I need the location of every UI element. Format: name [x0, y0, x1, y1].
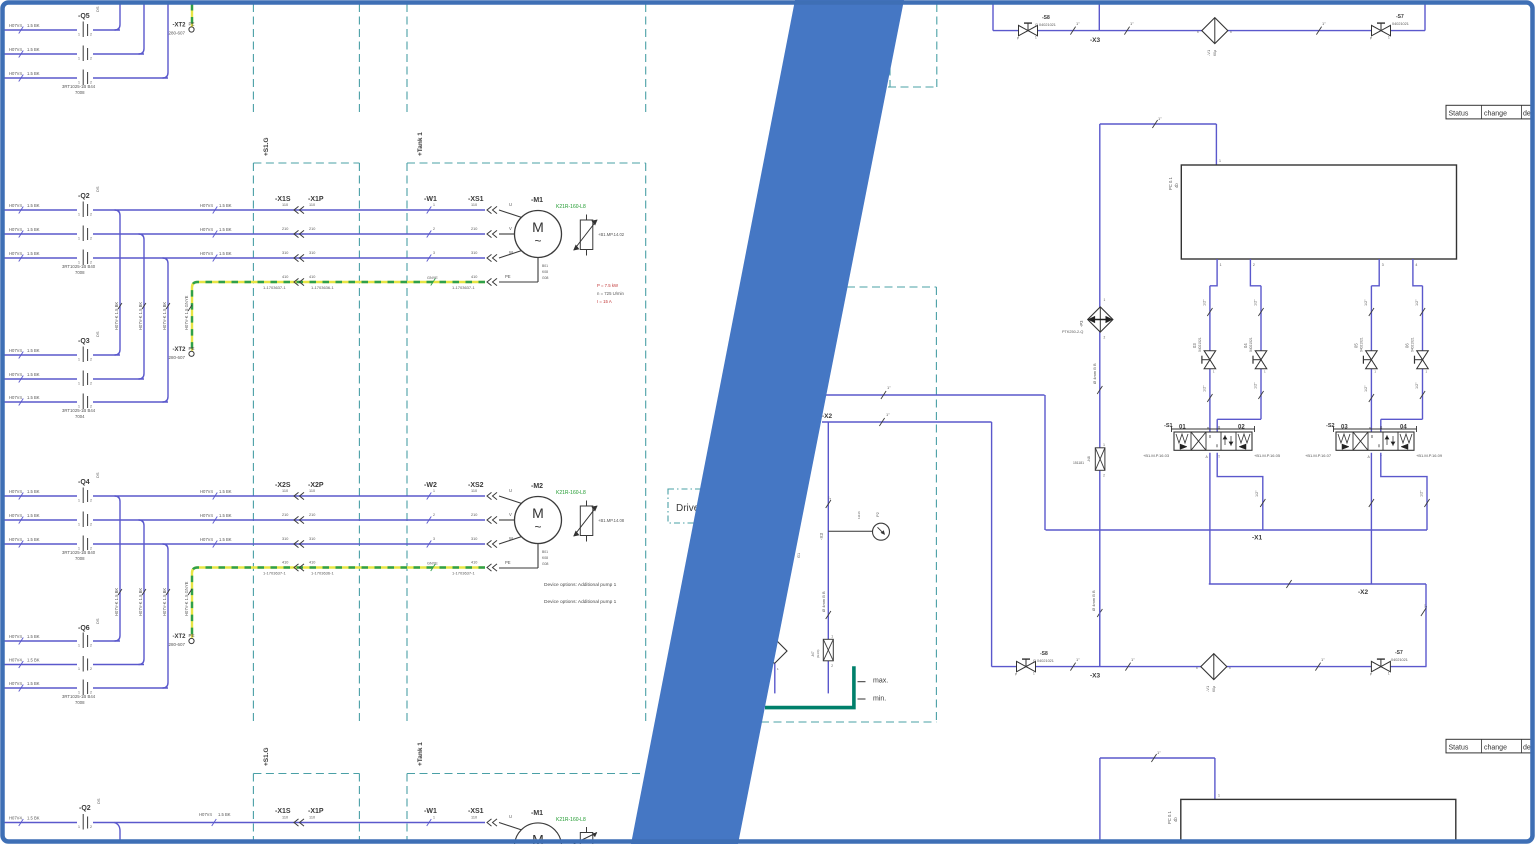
svg-text:-P3: -P3	[1079, 320, 1084, 327]
svg-text:110: 110	[309, 489, 315, 493]
svg-text:2: 2	[831, 664, 833, 668]
svg-text:2: 2	[90, 499, 92, 503]
svg-text:-X1S: -X1S	[275, 196, 291, 203]
svg-text:GNYE: GNYE	[427, 276, 438, 280]
svg-text:03: 03	[1192, 343, 1197, 348]
svg-text:04021021: 04021021	[1392, 22, 1409, 26]
svg-text:-N8: -N8	[1087, 456, 1091, 462]
svg-text:280-607: 280-607	[169, 642, 186, 647]
svg-text:06: 06	[1405, 343, 1410, 348]
svg-text:7008: 7008	[75, 700, 85, 705]
svg-text:3RT1025-1B B44: 3RT1025-1B B44	[62, 84, 96, 89]
svg-text:-X2P: -X2P	[308, 482, 324, 489]
svg-text:P: P	[1015, 673, 1017, 677]
svg-text:-S7: -S7	[1396, 14, 1404, 20]
svg-text:H07V4: H07V4	[9, 513, 22, 518]
svg-text:4b: 4b	[1174, 183, 1179, 188]
svg-text:1.5 BK: 1.5 BK	[27, 23, 40, 28]
svg-text:310: 310	[309, 537, 315, 541]
svg-text:-S2: -S2	[1326, 423, 1335, 429]
svg-text:K08: K08	[542, 556, 548, 560]
svg-text:-Q4: -Q4	[78, 479, 90, 486]
svg-text:02: 02	[1238, 424, 1245, 430]
svg-text:GNYE: GNYE	[427, 562, 438, 566]
svg-text:2: 2	[1103, 473, 1105, 477]
svg-text:DS: DS	[95, 472, 100, 478]
svg-text:210: 210	[471, 227, 477, 231]
svg-text:H07V4: H07V4	[200, 251, 213, 256]
svg-text:P2: P2	[875, 511, 880, 517]
svg-text:1.5 BK: 1.5 BK	[27, 227, 40, 232]
svg-text:W: W	[509, 536, 513, 541]
svg-text:1.5 BK: 1.5 BK	[27, 348, 40, 353]
svg-text:H07V4: H07V4	[199, 812, 212, 817]
svg-text:G 04021021: G 04021021	[1033, 659, 1054, 663]
svg-text:P: P	[1370, 673, 1372, 677]
svg-text:H07V-K 1.5 BK: H07V-K 1.5 BK	[138, 588, 143, 616]
svg-text:+B1.M.P.16.05: +B1.M.P.16.05	[1254, 453, 1281, 458]
svg-text:1": 1"	[1157, 750, 1161, 755]
svg-text:1: 1	[78, 499, 80, 503]
svg-text:1.5 BK: 1.5 BK	[219, 513, 232, 518]
svg-text:H07V4: H07V4	[200, 513, 213, 518]
svg-text:de: de	[1523, 744, 1531, 751]
svg-text:04021021: 04021021	[1411, 337, 1415, 352]
svg-text:DS: DS	[95, 331, 100, 337]
svg-text:x: x	[1229, 666, 1231, 670]
svg-text:PE: PE	[505, 560, 511, 565]
svg-text:04021021: 04021021	[1391, 658, 1408, 662]
svg-text:H07V4: H07V4	[9, 658, 22, 663]
svg-text:PTK250-2-Q: PTK250-2-Q	[1062, 330, 1083, 334]
svg-text:V: V	[509, 226, 512, 231]
svg-text:1/2": 1/2"	[1364, 299, 1368, 306]
svg-text:1: 1	[433, 489, 435, 493]
svg-text:1.5 BK: 1.5 BK	[27, 251, 40, 256]
svg-text:min.: min.	[873, 696, 886, 703]
svg-text:-X2S: -X2S	[275, 482, 291, 489]
svg-text:2: 2	[90, 213, 92, 217]
svg-text:110: 110	[282, 203, 288, 207]
svg-text:-XT2: -XT2	[173, 347, 187, 353]
svg-text:+Tank 1: +Tank 1	[417, 742, 424, 766]
svg-text:1.5 BK: 1.5 BK	[27, 47, 40, 52]
svg-text:-XT2: -XT2	[173, 634, 187, 640]
svg-text:-X1P: -X1P	[308, 808, 324, 815]
svg-text:G 04021021: G 04021021	[1035, 23, 1056, 27]
svg-text:1.5 BK: 1.5 BK	[219, 203, 232, 208]
svg-text:-M1: -M1	[531, 197, 543, 204]
svg-text:1-1703636-1: 1-1703636-1	[311, 285, 334, 290]
svg-text:04021021: 04021021	[1198, 337, 1202, 352]
svg-text:1: 1	[78, 57, 80, 61]
svg-text:Status: Status	[1449, 110, 1469, 117]
svg-text:11116: 11116	[857, 511, 861, 519]
svg-text:1.5 BK: 1.5 BK	[27, 816, 40, 821]
svg-text:-Q2: -Q2	[78, 193, 90, 200]
svg-text:H07V-K 1.5 BK: H07V-K 1.5 BK	[114, 302, 119, 330]
svg-text:1": 1"	[1423, 604, 1428, 608]
svg-text:Device options: Additional pum: Device options: Additional pump 1	[544, 582, 617, 588]
svg-text:-XT2: -XT2	[173, 23, 187, 29]
svg-text:+S1.G: +S1.G	[263, 137, 270, 156]
svg-text:H07V4: H07V4	[200, 537, 213, 542]
svg-text:V: V	[509, 512, 512, 517]
svg-text:P: P	[1017, 37, 1019, 41]
svg-text:H07V-K 1.5 BK: H07V-K 1.5 BK	[162, 302, 167, 330]
svg-text:4b: 4b	[1173, 817, 1178, 822]
svg-text:2: 2	[90, 237, 92, 241]
svg-text:DS: DS	[95, 618, 100, 624]
svg-text:H07V4: H07V4	[200, 489, 213, 494]
svg-text:-Q3: -Q3	[78, 338, 90, 345]
svg-text:310: 310	[282, 537, 288, 541]
svg-text:-X3: -X3	[819, 533, 824, 541]
svg-text:x: x	[1197, 30, 1199, 34]
svg-text:+Tank 1: +Tank 1	[417, 132, 424, 156]
svg-text:-Q2: -Q2	[79, 805, 91, 812]
svg-text:~: ~	[534, 234, 541, 248]
svg-text:H07V4: H07V4	[9, 251, 22, 256]
svg-text:3: 3	[1382, 263, 1384, 267]
svg-text:Ø 4mm B B: Ø 4mm B B	[1091, 590, 1096, 611]
svg-text:110: 110	[471, 816, 477, 820]
svg-text:H07V4: H07V4	[9, 372, 22, 377]
svg-text:03: 03	[1341, 424, 1348, 430]
svg-text:110: 110	[282, 489, 288, 493]
svg-text:1/2": 1/2"	[1254, 382, 1258, 389]
svg-text:60µ: 60µ	[1213, 50, 1217, 56]
svg-text:H07V4: H07V4	[9, 395, 22, 400]
svg-text:1.5 BK: 1.5 BK	[218, 812, 231, 817]
svg-text:Device options: Additional pum: Device options: Additional pump 1	[544, 599, 617, 605]
svg-text:-X2: -X2	[1358, 589, 1369, 596]
svg-text:1: 1	[78, 825, 80, 829]
svg-text:1: 1	[1035, 36, 1037, 40]
svg-text:410: 410	[309, 561, 315, 565]
svg-text:+B1.M.P.16.03: +B1.M.P.16.03	[1143, 453, 1170, 458]
svg-text:1: 1	[1033, 672, 1035, 676]
svg-text:G08: G08	[542, 562, 549, 566]
svg-text:-S7: -S7	[1395, 650, 1403, 656]
svg-text:K21R-160-L8: K21R-160-L8	[556, 817, 586, 823]
svg-text:H07V-K 1.5 GNYE: H07V-K 1.5 GNYE	[184, 581, 189, 616]
svg-text:1/2": 1/2"	[1254, 299, 1258, 306]
svg-text:1": 1"	[1322, 21, 1326, 26]
svg-text:P: P	[1370, 37, 1372, 41]
svg-text:2: 2	[90, 33, 92, 37]
svg-text:04: 04	[1243, 343, 1248, 348]
svg-text:H07V4: H07V4	[200, 227, 213, 232]
svg-text:-X1: -X1	[1252, 535, 1263, 542]
svg-text:H07V4: H07V4	[9, 47, 22, 52]
svg-text:210: 210	[471, 513, 477, 517]
svg-text:H07V-K 1.5 BK: H07V-K 1.5 BK	[162, 588, 167, 616]
svg-text:1": 1"	[1321, 657, 1325, 662]
svg-text:-X3: -X3	[1090, 37, 1101, 44]
svg-text:H07V4: H07V4	[9, 634, 22, 639]
svg-text:-S8: -S8	[1040, 651, 1048, 657]
svg-text:-X2: -X2	[822, 413, 833, 420]
svg-text:DS: DS	[95, 6, 100, 12]
svg-text:2: 2	[90, 358, 92, 362]
svg-text:04: 04	[1400, 424, 1407, 430]
svg-text:04021021: 04021021	[1359, 337, 1363, 352]
svg-text:310: 310	[309, 251, 315, 255]
svg-text:+B1.M.P.16.09: +B1.M.P.16.09	[1416, 453, 1443, 458]
svg-text:210: 210	[282, 513, 288, 517]
svg-text:2: 2	[433, 513, 435, 517]
svg-text:H07V4: H07V4	[9, 348, 22, 353]
svg-text:1/2": 1/2"	[1415, 382, 1419, 389]
svg-text:2: 2	[90, 523, 92, 527]
svg-text:410: 410	[282, 275, 288, 279]
svg-text:1": 1"	[1131, 657, 1135, 662]
svg-text:n = 725 U/min: n = 725 U/min	[597, 291, 624, 296]
svg-text:110: 110	[309, 816, 315, 820]
svg-text:1: 1	[1219, 159, 1221, 163]
svg-text:1-1703637-1: 1-1703637-1	[263, 571, 286, 576]
svg-text:3RT1025-1B B40: 3RT1025-1B B40	[62, 550, 96, 555]
svg-text:1.5 BK: 1.5 BK	[27, 513, 40, 518]
svg-text:-XS1: -XS1	[468, 196, 484, 203]
svg-text:PE: PE	[189, 22, 195, 27]
svg-text:H07V4: H07V4	[9, 227, 22, 232]
svg-text:change: change	[1484, 744, 1507, 751]
svg-text:1.5 BK: 1.5 BK	[27, 203, 40, 208]
svg-text:2: 2	[90, 825, 92, 829]
svg-text:PE: PE	[189, 633, 195, 638]
svg-text:3: 3	[433, 251, 435, 255]
svg-text:Ø 4mm B B: Ø 4mm B B	[821, 591, 826, 612]
svg-text:1.5 BK: 1.5 BK	[219, 489, 232, 494]
svg-text:1": 1"	[1130, 21, 1134, 26]
svg-text:110: 110	[282, 816, 288, 820]
svg-text:1: 1	[78, 667, 80, 671]
svg-text:410: 410	[471, 275, 477, 279]
svg-text:PC 0.1: PC 0.1	[1167, 811, 1172, 824]
svg-text:210: 210	[309, 513, 315, 517]
svg-text:1.5 BK: 1.5 BK	[27, 71, 40, 76]
svg-text:U: U	[509, 488, 512, 493]
svg-text:1/2": 1/2"	[1420, 490, 1424, 497]
svg-text:1: 1	[78, 382, 80, 386]
svg-text:7004: 7004	[75, 414, 85, 419]
svg-text:110: 110	[309, 203, 315, 207]
svg-text:1: 1	[78, 523, 80, 527]
svg-text:1.5 BK: 1.5 BK	[27, 489, 40, 494]
svg-text:7008: 7008	[75, 270, 85, 275]
svg-text:1.5 BK: 1.5 BK	[219, 227, 232, 232]
svg-text:H07V4: H07V4	[200, 203, 213, 208]
svg-text:1: 1	[78, 237, 80, 241]
svg-text:2: 2	[90, 644, 92, 648]
svg-text:3: 3	[433, 537, 435, 541]
svg-text:H07V4: H07V4	[9, 816, 22, 821]
svg-text:2: 2	[1253, 263, 1255, 267]
svg-text:P = 7.5 kW: P = 7.5 kW	[597, 283, 619, 288]
svg-text:1": 1"	[1076, 657, 1080, 662]
svg-text:1: 1	[1218, 794, 1220, 798]
svg-text:1-1703637-1: 1-1703637-1	[452, 571, 475, 576]
svg-text:PC 0.1: PC 0.1	[1168, 177, 1173, 190]
svg-text:-Q6: -Q6	[78, 625, 90, 632]
svg-text:-N7: -N7	[811, 651, 815, 657]
svg-text:2: 2	[90, 382, 92, 386]
svg-text:7008: 7008	[75, 556, 85, 561]
svg-text:1: 1	[1220, 263, 1222, 267]
svg-text:+B1.M.P.16.07: +B1.M.P.16.07	[1305, 453, 1332, 458]
svg-text:-M1: -M1	[531, 810, 543, 817]
svg-text:DS: DS	[96, 798, 101, 804]
svg-text:-S8: -S8	[1042, 15, 1050, 21]
svg-text:change: change	[1484, 110, 1507, 117]
svg-text:M: M	[532, 505, 544, 521]
svg-text:H07V4: H07V4	[9, 71, 22, 76]
svg-text:B01: B01	[542, 264, 548, 268]
svg-text:-XS2: -XS2	[468, 482, 484, 489]
svg-text:PE: PE	[189, 346, 195, 351]
svg-text:4: 4	[1415, 263, 1417, 267]
svg-text:210: 210	[309, 227, 315, 231]
svg-text:310: 310	[471, 537, 477, 541]
svg-text:~: ~	[534, 520, 541, 534]
svg-text:01: 01	[1179, 424, 1186, 430]
svg-text:110: 110	[471, 489, 477, 493]
svg-text:2: 2	[433, 227, 435, 231]
svg-text:2: 2	[1104, 336, 1106, 340]
svg-text:410: 410	[309, 275, 315, 279]
svg-text:+B1.MP.14.08: +B1.MP.14.08	[598, 518, 625, 523]
svg-text:1: 1	[433, 816, 435, 820]
svg-text:-W1: -W1	[424, 808, 437, 815]
svg-text:1: 1	[1104, 298, 1106, 302]
svg-text:1: 1	[78, 213, 80, 217]
svg-text:280-607: 280-607	[169, 355, 186, 360]
svg-text:x: x	[1230, 30, 1232, 34]
svg-text:1/2": 1/2"	[1255, 490, 1259, 497]
svg-text:-W1: -W1	[424, 196, 437, 203]
svg-text:1.5 BK: 1.5 BK	[27, 681, 40, 686]
svg-text:de: de	[1523, 110, 1531, 117]
svg-text:U: U	[509, 814, 512, 819]
svg-text:G1: G1	[797, 553, 801, 558]
svg-text:1-1703637-1: 1-1703637-1	[452, 285, 475, 290]
svg-text:1": 1"	[886, 412, 890, 417]
svg-text:PE: PE	[505, 274, 511, 279]
svg-text:1: 1	[831, 634, 833, 638]
svg-text:H07V-K 1.5 BK: H07V-K 1.5 BK	[138, 302, 143, 330]
svg-text:K08: K08	[542, 270, 548, 274]
svg-text:110: 110	[471, 203, 477, 207]
svg-text:3RT1025-1B B40: 3RT1025-1B B40	[62, 264, 96, 269]
svg-text:-Q5: -Q5	[78, 13, 90, 20]
svg-text:410: 410	[282, 561, 288, 565]
svg-text:1": 1"	[887, 385, 891, 390]
svg-text:1.5 BK: 1.5 BK	[219, 251, 232, 256]
svg-text:7008: 7008	[75, 90, 85, 95]
svg-text:1/2": 1/2"	[1202, 299, 1206, 306]
svg-text:-X3: -X3	[1090, 673, 1101, 680]
svg-text:280-607: 280-607	[169, 31, 186, 36]
svg-text:H07V4: H07V4	[9, 203, 22, 208]
svg-text:1/2": 1/2"	[1364, 385, 1368, 392]
svg-text:05: 05	[1353, 343, 1358, 348]
svg-text:(G1/4): (G1/4)	[816, 649, 820, 658]
svg-text:T: T	[1218, 455, 1220, 459]
svg-text:K21R-160-L8: K21R-160-L8	[556, 204, 586, 210]
svg-text:H07V4: H07V4	[9, 681, 22, 686]
svg-text:x: x	[1196, 666, 1198, 670]
svg-text:W: W	[509, 250, 513, 255]
svg-text:1.5 BK: 1.5 BK	[27, 634, 40, 639]
svg-text:-XS1: -XS1	[468, 808, 484, 815]
svg-text:1.5 BK: 1.5 BK	[27, 658, 40, 663]
svg-text:K21R-160-L8: K21R-160-L8	[556, 490, 586, 496]
svg-text:60µ: 60µ	[1212, 686, 1216, 692]
svg-text:310: 310	[471, 251, 477, 255]
svg-text:1: 1	[433, 203, 435, 207]
svg-text:Status: Status	[1449, 744, 1469, 751]
svg-text:B01: B01	[542, 550, 548, 554]
svg-text:1: 1	[1388, 36, 1390, 40]
svg-text:1: 1	[1103, 443, 1105, 447]
svg-text:I = 15 A: I = 15 A	[597, 299, 612, 304]
svg-text:3RT1025-1B B44: 3RT1025-1B B44	[62, 694, 96, 699]
svg-text:3RT1025-1B B44: 3RT1025-1B B44	[62, 408, 96, 413]
svg-text:1: 1	[1388, 672, 1390, 676]
svg-text:1-1703637-1: 1-1703637-1	[263, 285, 286, 290]
svg-text:210: 210	[282, 227, 288, 231]
svg-text:DS: DS	[95, 186, 100, 192]
svg-text:2: 2	[90, 667, 92, 671]
svg-text:max.: max.	[873, 678, 888, 685]
svg-text:310: 310	[282, 251, 288, 255]
svg-text:1.5 BK: 1.5 BK	[27, 537, 40, 542]
svg-text:04021021: 04021021	[1249, 337, 1253, 352]
svg-text:1: 1	[78, 33, 80, 37]
svg-text:410: 410	[471, 561, 477, 565]
svg-text:-W2: -W2	[424, 482, 437, 489]
svg-text:1.5 BK: 1.5 BK	[27, 395, 40, 400]
svg-text:1/2": 1/2"	[1202, 385, 1206, 392]
svg-text:151181: 151181	[1073, 461, 1084, 465]
svg-text:+S1.G: +S1.G	[263, 747, 270, 766]
svg-text:+B1.MP.14.02: +B1.MP.14.02	[598, 232, 625, 237]
svg-text:2: 2	[90, 57, 92, 61]
svg-text:H07V-K 1.5 GNYE: H07V-K 1.5 GNYE	[184, 295, 189, 330]
svg-text:-V1: -V1	[1206, 49, 1211, 56]
svg-text:M: M	[532, 219, 544, 235]
svg-text:H07V-K 1.5 BK: H07V-K 1.5 BK	[114, 588, 119, 616]
svg-text:-M2: -M2	[531, 483, 543, 490]
svg-text:H07V4: H07V4	[9, 489, 22, 494]
svg-text:-X1S: -X1S	[275, 808, 291, 815]
svg-text:1/2": 1/2"	[1415, 299, 1419, 306]
svg-text:U: U	[509, 202, 512, 207]
svg-text:1-1703636-1: 1-1703636-1	[311, 571, 334, 576]
svg-text:1: 1	[78, 358, 80, 362]
svg-text:1.5 BK: 1.5 BK	[219, 537, 232, 542]
svg-text:1.5 BK: 1.5 BK	[27, 372, 40, 377]
svg-text:H07V4: H07V4	[9, 23, 22, 28]
svg-text:1": 1"	[1076, 21, 1080, 26]
svg-text:G08: G08	[542, 276, 549, 280]
svg-text:Ø 4mm B B: Ø 4mm B B	[1092, 363, 1097, 384]
svg-text:1: 1	[78, 644, 80, 648]
svg-text:1": 1"	[1158, 116, 1162, 121]
svg-text:-X1P: -X1P	[308, 196, 324, 203]
